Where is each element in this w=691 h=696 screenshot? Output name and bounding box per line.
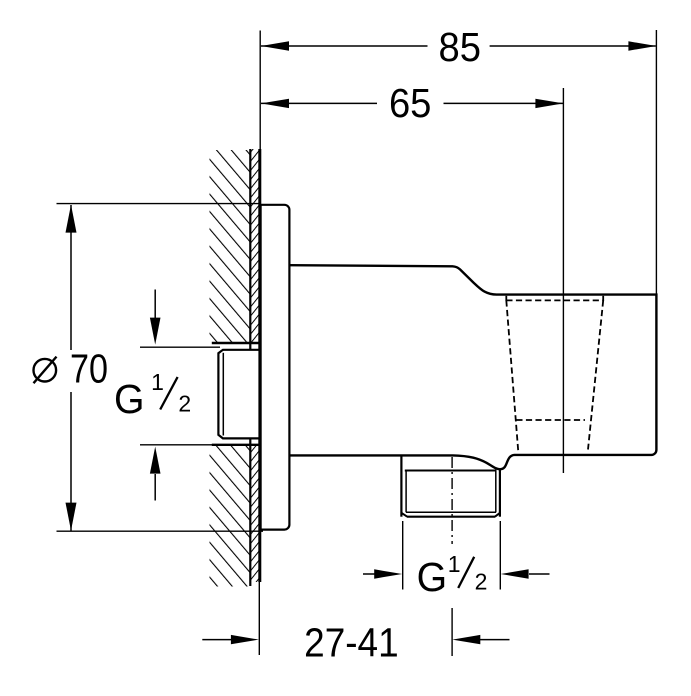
body underside outline [289, 455, 500, 469]
flange escutcheon [260, 204, 290, 530]
outlet thread [401, 455, 500, 516]
wall face line inner [249, 149, 251, 586]
holder cone dashed [506, 296, 603, 452]
union collar bottom line [212, 444, 260, 446]
dimension 27-41 [202, 620, 509, 666]
label G1/2 bottom [417, 551, 488, 600]
svg-text:70: 70 [70, 345, 108, 391]
svg-text:G: G [114, 376, 145, 422]
wall face line outer (finished wall) [258, 149, 261, 582]
union collar top line [212, 342, 260, 344]
dimension D70 vertical [57, 204, 264, 532]
svg-text:G: G [417, 554, 448, 600]
outlet centerline [451, 457, 453, 656]
dimension 85 [261, 24, 656, 70]
extension line holder axis (65 end) [562, 88, 564, 473]
union thread body [218, 350, 259, 439]
label D70 [34, 345, 109, 391]
wall finish layer hatch upper [250, 149, 259, 343]
svg-text:27-41: 27-41 [304, 620, 399, 666]
extension line wall face bottom [258, 582, 260, 655]
svg-text:2: 2 [178, 390, 191, 416]
wall hatch upper band [210, 150, 251, 343]
wall finish layer hatch lower [250, 445, 259, 582]
extension line right (85 end) [655, 30, 657, 295]
svg-text:1: 1 [448, 551, 461, 577]
body top outline [289, 265, 656, 469]
small dimension lower (arrow up) [140, 445, 220, 501]
label G1/2 left [114, 369, 191, 422]
svg-text:85: 85 [439, 24, 482, 70]
dimension G1/2 bottom [363, 521, 550, 590]
svg-text:65: 65 [389, 80, 432, 126]
extension line left (from wall face up) [259, 31, 261, 150]
svg-text:2: 2 [475, 568, 488, 594]
svg-text:1: 1 [151, 369, 164, 395]
dimension 65 [261, 80, 563, 126]
small dimension upper (arrow down) [140, 290, 220, 348]
wall hatch lower band [210, 445, 251, 587]
